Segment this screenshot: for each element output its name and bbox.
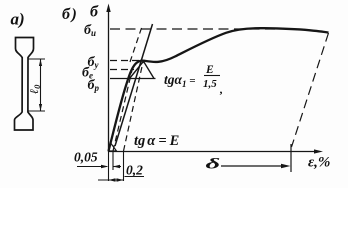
angle mark alpha at origin [109, 143, 117, 151]
svg-text:E: E [205, 64, 214, 76]
dashed offset line 0.2 [124, 62, 144, 151]
svg-text:,: , [219, 82, 223, 96]
svg-text:0,2: 0,2 [126, 163, 143, 178]
specimen extension line top [28, 58, 45, 60]
svg-text:бp: бp [88, 78, 100, 93]
dimension line l0 [40, 60, 42, 111]
sigma_y dashed level [110, 60, 140, 62]
stress-strain curve [109, 28, 329, 151]
sigma_e dashed level [110, 69, 134, 71]
svg-text:ε,%: ε,% [308, 155, 330, 171]
svg-text:а): а) [11, 10, 25, 29]
leader 0,05 [77, 166, 107, 168]
svg-text:бu: бu [84, 23, 96, 38]
svg-text:δ: δ [205, 155, 220, 171]
sigma_u dashed level [110, 28, 276, 30]
specimen extension line bottom [28, 110, 45, 112]
specimen outline [15, 38, 34, 131]
extension line 0.05 [112, 152, 114, 171]
sigma_p solid level / triangle base [110, 78, 156, 80]
svg-text:бy: бy [88, 55, 100, 70]
extension line at origin below axis [108, 152, 110, 182]
x-axis epsilon [109, 151, 319, 153]
delta dimension arrow [221, 165, 286, 167]
dimension line 0,2 [98, 179, 123, 181]
svg-text:б): б) [62, 6, 77, 23]
svg-text:1,5: 1,5 [203, 78, 217, 90]
extension line 0.2 [123, 152, 125, 182]
svg-text:tgα=E: tgα=E [134, 133, 180, 149]
tick at end of delta [290, 144, 292, 172]
svg-text:tgα1 =: tgα1 = [164, 72, 196, 89]
dashed unloading line [292, 33, 329, 147]
tangent line tg alpha1 [115, 24, 153, 146]
angle triangle alpha1 [130, 61, 155, 78]
dashed line parallel to tangent [130, 25, 143, 62]
svg-text:0,05: 0,05 [74, 150, 98, 165]
dashed offset line 0.05 [113, 64, 134, 151]
svg-text:ℓ0: ℓ0 [27, 84, 42, 94]
y-axis sigma [108, 8, 110, 152]
svg-text:б: б [90, 4, 99, 21]
